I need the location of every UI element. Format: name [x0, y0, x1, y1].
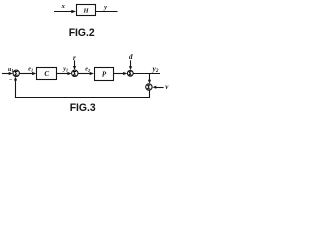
- svg-text:e1: e1: [28, 66, 33, 72]
- svg-text:FIG.2: FIG.2: [69, 27, 95, 39]
- svg-text:e2: e2: [85, 67, 91, 73]
- svg-text:P: P: [102, 70, 107, 78]
- svg-text:H: H: [82, 7, 89, 14]
- svg-text:C: C: [44, 70, 49, 78]
- svg-text:r: r: [73, 54, 76, 62]
- svg-text:x: x: [61, 3, 66, 10]
- svg-text:u1: u1: [8, 67, 14, 73]
- svg-text:−: −: [9, 77, 13, 83]
- svg-text:y1: y1: [62, 66, 68, 72]
- svg-text:FIG.3: FIG.3: [70, 102, 96, 114]
- svg-text:d: d: [129, 53, 133, 61]
- svg-text:y: y: [103, 4, 107, 11]
